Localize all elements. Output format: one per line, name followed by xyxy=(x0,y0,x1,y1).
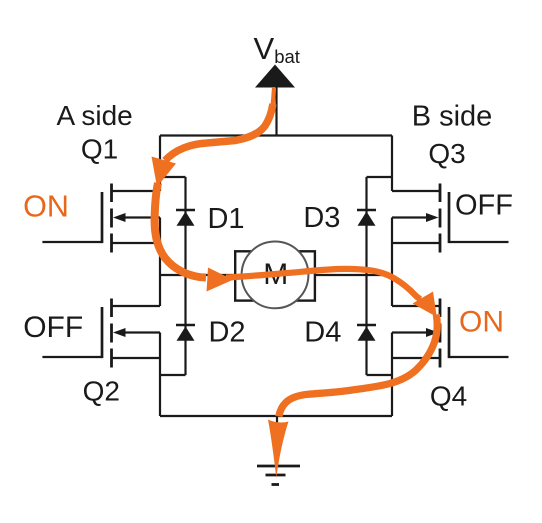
wire: motor lead left xyxy=(160,274,235,276)
wire: bottom rail ground xyxy=(160,415,392,417)
wire: right rail motor-node segment xyxy=(391,218,393,307)
svg-text:ON: ON xyxy=(23,190,69,224)
wire: left diode rail xyxy=(184,177,186,375)
svg-text:D4: D4 xyxy=(304,317,341,349)
current path arrowhead 3 xyxy=(413,292,437,318)
svg-text:Q3: Q3 xyxy=(428,138,465,169)
current path arrowhead 4 (to ground) xyxy=(268,420,289,478)
wire: right rail ground segment xyxy=(391,333,393,417)
transistor Q1 xyxy=(42,184,160,253)
wire: Vbat stem xyxy=(275,86,277,136)
wire: motor lead right xyxy=(315,274,392,276)
wire: left rail ground segment xyxy=(159,333,161,417)
motor M terminal box xyxy=(235,251,315,300)
svg-text:D1: D1 xyxy=(207,203,244,235)
svg-text:D2: D2 xyxy=(208,317,245,349)
current path stroke 3 (through motor to Q4) xyxy=(226,269,421,299)
current path arrowhead 2 xyxy=(207,268,234,292)
motor M circle xyxy=(242,242,309,309)
current path arrowhead 1 xyxy=(152,157,177,188)
svg-text:B side: B side xyxy=(412,101,493,133)
current path stroke 2 (through Q1 to motor) xyxy=(155,183,206,278)
diode D3 xyxy=(357,210,376,226)
wire: right rail Vbat segment xyxy=(391,136,393,192)
diode D2 xyxy=(176,325,195,341)
svg-text:Q4: Q4 xyxy=(430,381,467,412)
svg-text:A side: A side xyxy=(56,100,132,131)
wire: jog left top to D1 xyxy=(160,176,186,178)
Vbat arrow symbol xyxy=(255,65,295,88)
wire: right diode rail xyxy=(365,177,367,375)
svg-text:ON: ON xyxy=(459,306,504,339)
current path stroke 1 (from Vbat) xyxy=(272,88,274,108)
svg-text:D3: D3 xyxy=(303,202,340,234)
wire: jog right top to D3 xyxy=(367,176,393,178)
wire: jog left bottom to D2 xyxy=(160,374,186,376)
wire: left rail motor-node segment xyxy=(159,218,161,307)
wire: ground stub xyxy=(276,416,278,466)
transistor Q3 xyxy=(392,184,509,253)
svg-text:Q2: Q2 xyxy=(83,376,120,407)
transistor Q2 xyxy=(42,299,160,368)
diode D1 xyxy=(176,210,195,226)
current path stroke 1b xyxy=(165,104,273,161)
svg-text:Q1: Q1 xyxy=(81,134,118,165)
transistor Q4 xyxy=(392,299,509,368)
current path stroke 4 (through Q4 to ground) xyxy=(279,315,437,417)
wire: left rail Vbat segment xyxy=(159,136,161,192)
wire: top rail Vbat xyxy=(160,134,392,136)
ground symbol xyxy=(257,466,300,485)
diode D4 xyxy=(357,325,376,341)
svg-text:OFF: OFF xyxy=(455,189,513,221)
svg-text:OFF: OFF xyxy=(23,311,83,344)
wire: jog right bottom to D4 xyxy=(367,374,393,376)
